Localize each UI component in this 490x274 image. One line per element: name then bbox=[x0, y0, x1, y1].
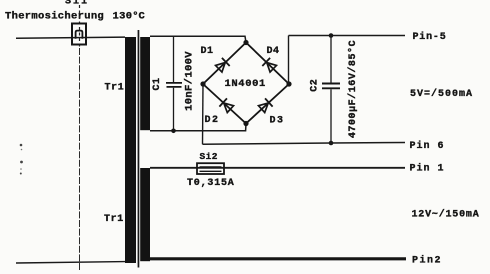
transformer Tr1 core line bbox=[138, 30, 140, 268]
wire right node riser bbox=[288, 36, 290, 85]
svg-text:Pin 6: Pin 6 bbox=[410, 140, 445, 152]
wire primary top rail bbox=[16, 37, 125, 38]
svg-text:Pin-5: Pin-5 bbox=[413, 31, 447, 43]
transformer Tr1 secondary 12V winding bar bbox=[140, 168, 150, 261]
thermal fuse Si1 dashed actuation line bbox=[79, 5, 81, 48]
bridge edge T-R wire bbox=[246, 43, 289, 85]
diode D3 bbox=[258, 98, 273, 113]
wire primary bottom rail bbox=[16, 262, 125, 263]
node bridge top bbox=[243, 40, 248, 45]
svg-text:1N4001: 1N4001 bbox=[225, 78, 266, 90]
svg-text:C2: C2 bbox=[310, 79, 321, 92]
svg-text:Pin2: Pin2 bbox=[412, 255, 442, 267]
svg-text:Si1: Si1 bbox=[65, 0, 89, 7]
wire Pin 6 rail bbox=[203, 143, 406, 145]
diode D1 bbox=[215, 58, 230, 73]
svg-text:D2: D2 bbox=[205, 115, 220, 126]
svg-text:T0,315A: T0,315A bbox=[187, 178, 235, 189]
wire Pin 1 rail bbox=[150, 167, 405, 169]
svg-text:130°: 130° bbox=[113, 10, 139, 22]
node C2 top junction bbox=[329, 33, 334, 38]
svg-text:Thermosicherung: Thermosicherung bbox=[5, 10, 104, 22]
node bridge bottom bbox=[243, 121, 248, 126]
wire Pin 2 rail bbox=[150, 257, 406, 260]
wire secondary top rail bbox=[150, 36, 246, 42]
bridge edge L-T wire bbox=[203, 43, 246, 85]
transformer Tr1 primary winding bar bbox=[125, 37, 136, 263]
node C1-secondary junction bbox=[171, 129, 176, 134]
capacitor C1 plates bbox=[166, 83, 182, 87]
thermal fuse Si1 body bbox=[72, 24, 86, 45]
svg-text:Pin 1: Pin 1 bbox=[410, 163, 445, 175]
bridge edge B-R wire bbox=[246, 84, 289, 124]
svg-text:Tr1: Tr1 bbox=[105, 83, 125, 94]
fuse Si2 body bbox=[197, 163, 224, 174]
capacitor C2 plates bbox=[322, 84, 340, 89]
transformer Tr1 secondary 5V winding bar bbox=[140, 37, 150, 130]
diode D2 bbox=[219, 98, 234, 113]
wire Pin 5 rail bbox=[289, 35, 406, 37]
svg-text:5V=/500mA: 5V=/500mA bbox=[410, 88, 473, 100]
wire left node drop to Pin 6 bbox=[202, 84, 205, 144]
node C2 bottom junction bbox=[329, 141, 334, 146]
node bridge left bbox=[200, 81, 205, 86]
thermal fuse Si1 element bbox=[76, 31, 83, 39]
svg-text:D4: D4 bbox=[267, 46, 280, 57]
svg-text:D3: D3 bbox=[270, 116, 285, 127]
svg-text:12V~/150mA: 12V~/150mA bbox=[412, 209, 480, 221]
capacitor C1 bottom lead bbox=[173, 88, 175, 131]
bridge edge L-B wire bbox=[203, 84, 246, 124]
svg-text:Tr1: Tr1 bbox=[104, 214, 124, 225]
svg-text:Si2: Si2 bbox=[200, 151, 218, 162]
scan speck dots bbox=[20, 144, 23, 175]
diode D4 bbox=[262, 58, 277, 73]
wire secondary bottom rail bbox=[150, 124, 246, 131]
svg-text:C: C bbox=[139, 10, 146, 22]
capacitor C2 bottom lead bbox=[330, 89, 332, 143]
capacitor C1 top lead bbox=[173, 36, 175, 82]
node bridge right bbox=[286, 81, 291, 86]
svg-text:4700µF/16V/85°C: 4700µF/16V/85°C bbox=[347, 40, 359, 138]
capacitor C2 top lead bbox=[330, 36, 332, 83]
svg-text:C1: C1 bbox=[152, 77, 163, 90]
svg-text:10nF/100V: 10nF/100V bbox=[184, 51, 196, 111]
svg-text:D1: D1 bbox=[201, 46, 214, 57]
